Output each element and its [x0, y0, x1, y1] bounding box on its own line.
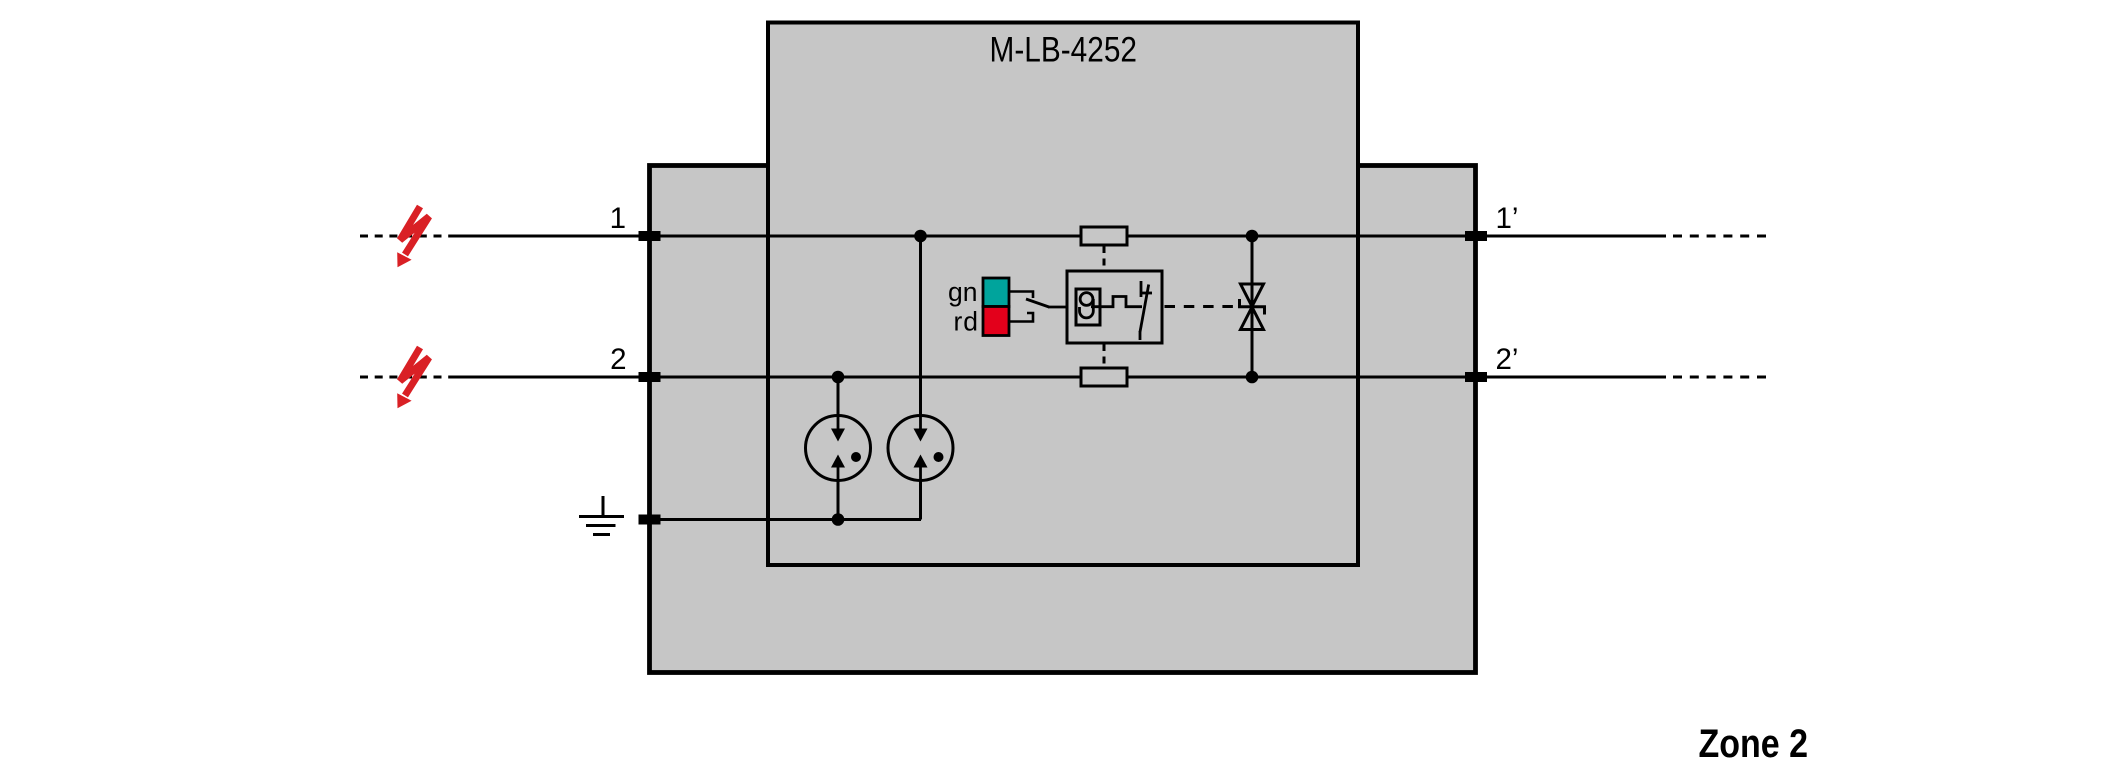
svg-text:Zone 2: Zone 2	[1699, 722, 1809, 766]
svg-text:1’: 1’	[1496, 202, 1519, 235]
svg-text:gn: gn	[948, 277, 977, 307]
svg-text:2: 2	[610, 343, 626, 376]
svg-text:rd: rd	[954, 307, 979, 337]
svg-text:2’: 2’	[1496, 343, 1519, 376]
svg-text:1: 1	[610, 202, 626, 235]
svg-text:M-LB-4252: M-LB-4252	[990, 31, 1138, 70]
